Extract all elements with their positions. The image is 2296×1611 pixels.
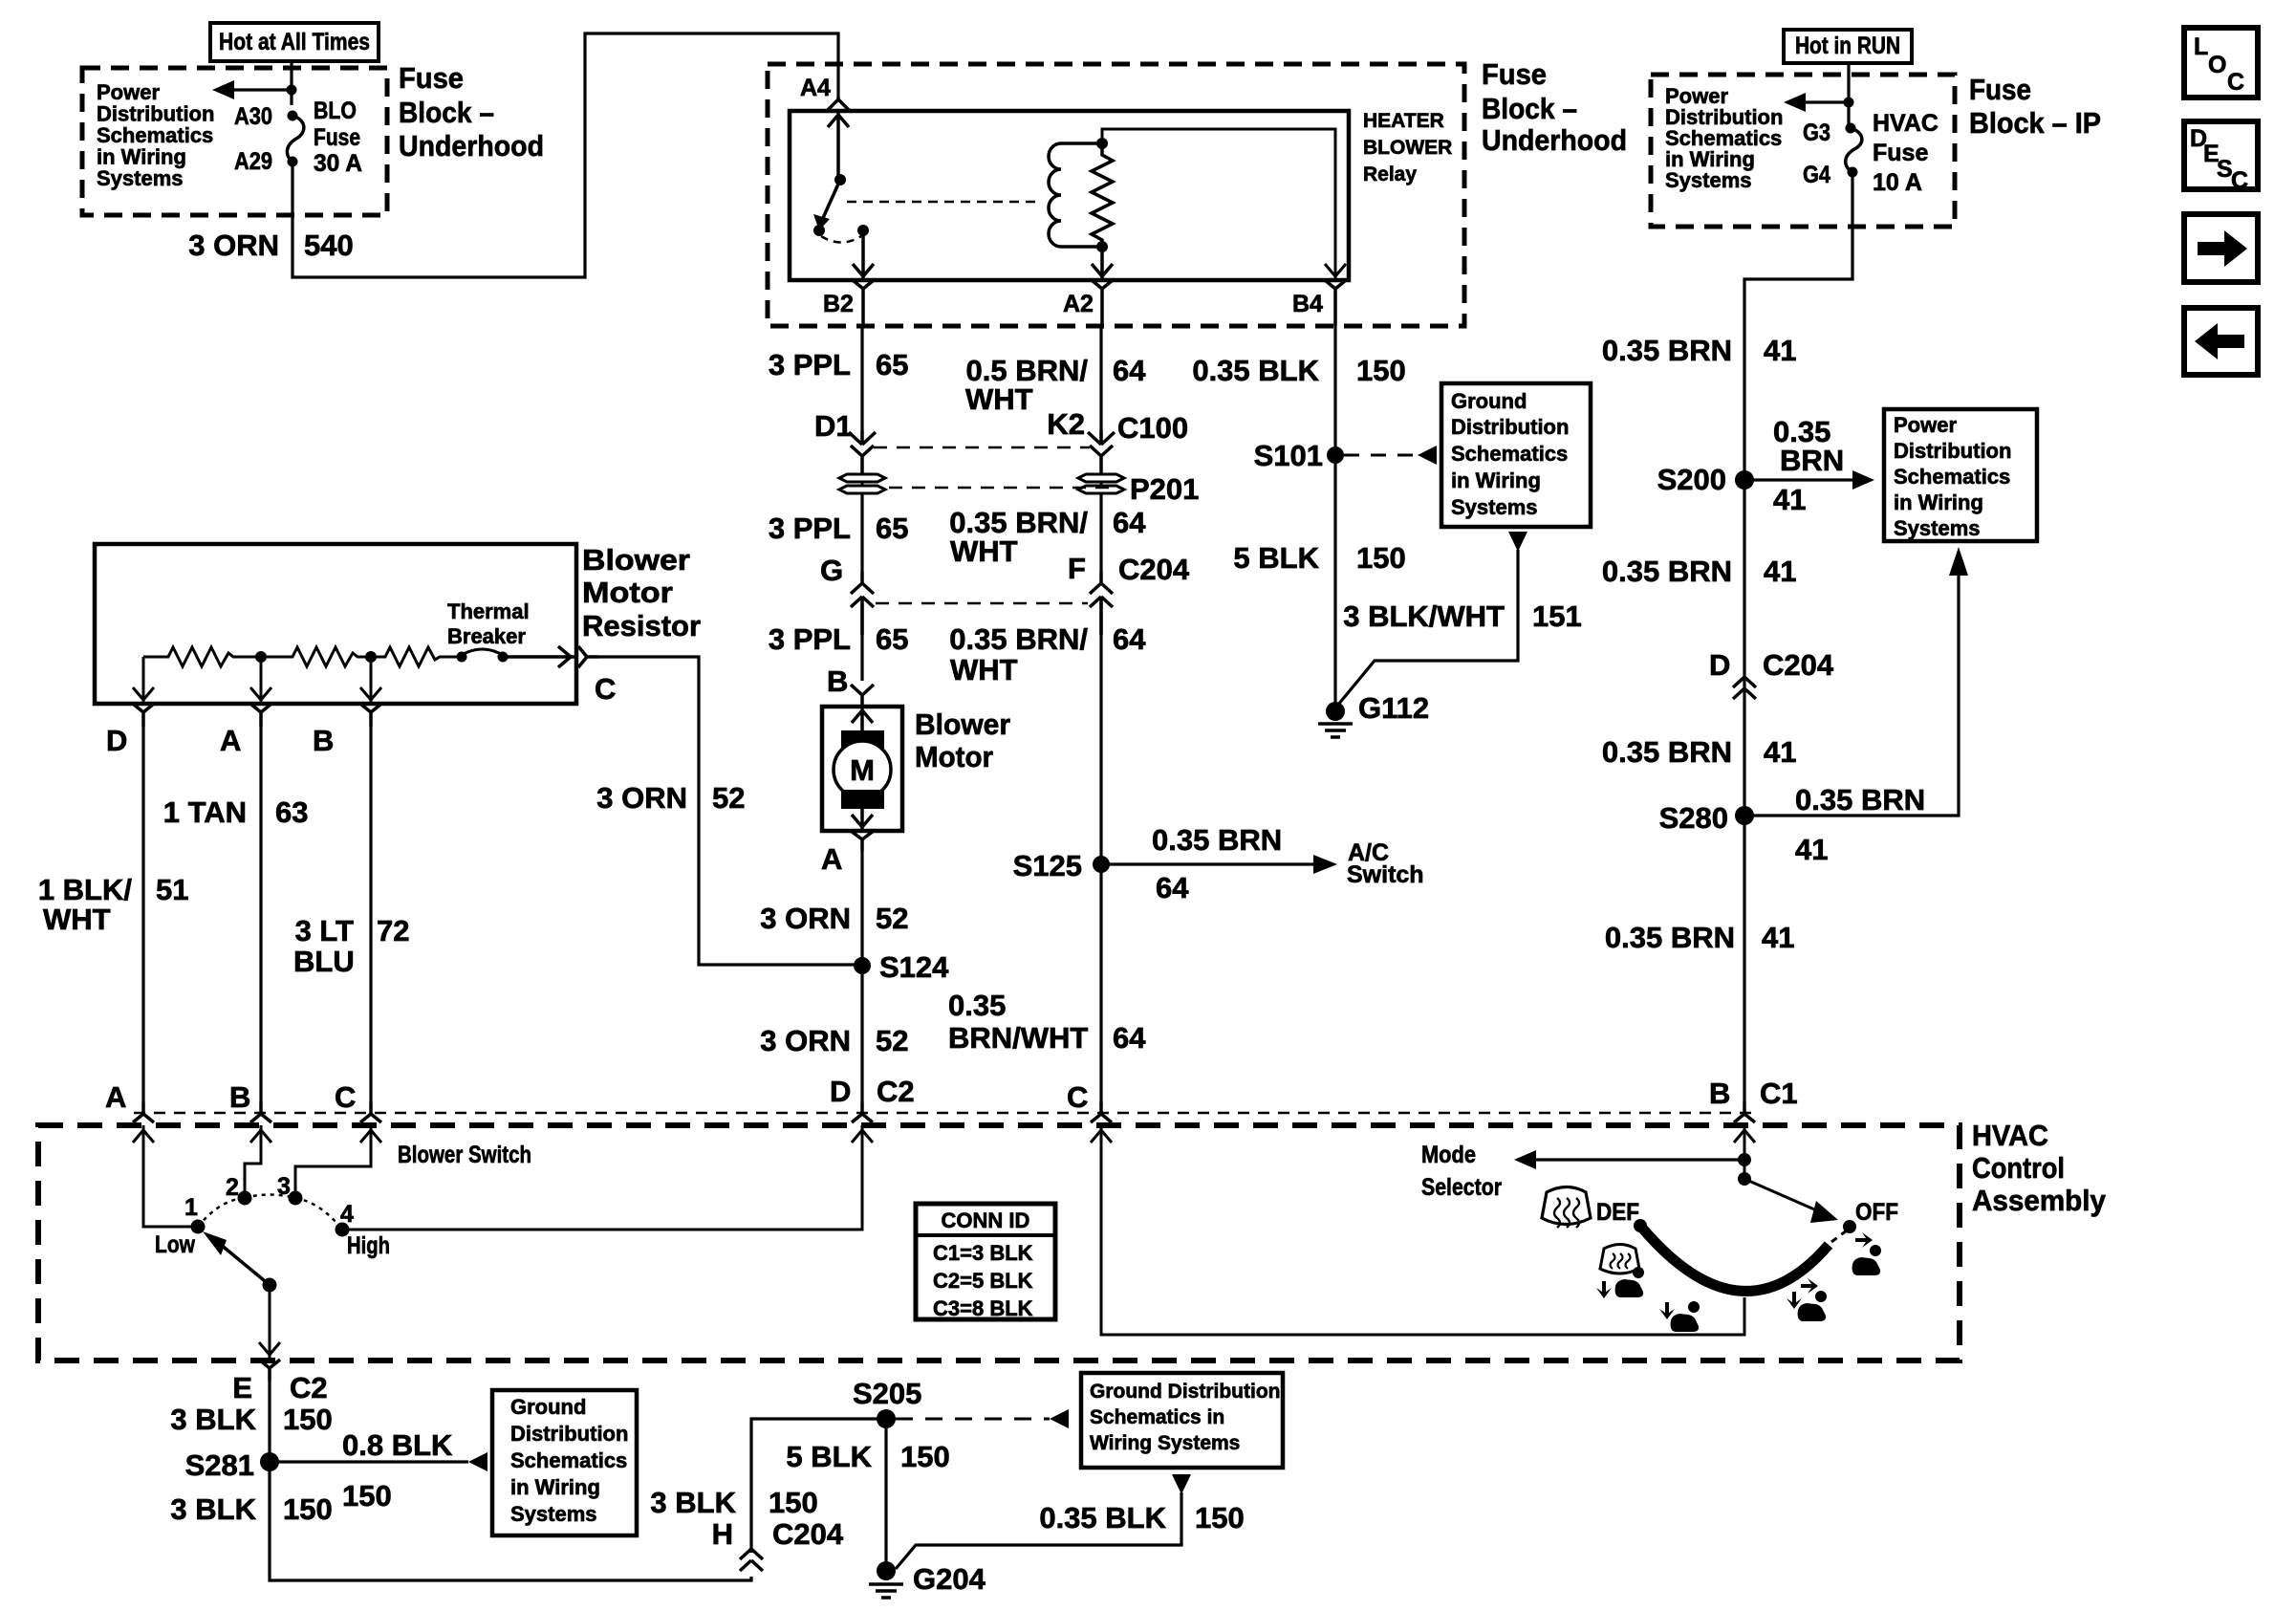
svg-text:E: E <box>232 1371 252 1404</box>
svg-text:41: 41 <box>1764 334 1796 367</box>
label A/C Switch <box>1347 839 1424 888</box>
left arrow box <box>2184 308 2258 375</box>
connector C204 H double chevron <box>740 1549 763 1571</box>
motor circle M <box>834 741 891 798</box>
connector fork D1 <box>851 446 874 474</box>
wire coil top to B4 exit <box>1102 129 1346 280</box>
label Fuse Block - IP <box>1969 73 2101 140</box>
OFF contact <box>1843 1220 1856 1233</box>
svg-text:G112: G112 <box>1358 691 1429 725</box>
ground distribution box (S205) <box>1081 1373 1283 1468</box>
label B2 <box>823 291 854 317</box>
label 0.35 BRN/WHT 64 (2) <box>949 506 1146 568</box>
svg-text:150: 150 <box>342 1479 392 1513</box>
dashed throw arc <box>821 236 861 243</box>
connector fork B resistor <box>360 704 381 727</box>
mode wiper pivot <box>1738 1172 1751 1186</box>
connector C204 D double chevron <box>1733 677 1756 699</box>
svg-text:Distribution: Distribution <box>97 102 214 126</box>
wire A into switch contact 1 <box>133 1125 191 1227</box>
svg-text:Mode: Mode <box>1421 1142 1476 1168</box>
ground distribution box (S101) <box>1441 383 1591 527</box>
svg-text:3: 3 <box>277 1173 291 1200</box>
svg-text:Systems: Systems <box>1894 516 1981 540</box>
relay coil resistor <box>1092 143 1113 247</box>
label B4 <box>1292 291 1323 317</box>
svg-text:41: 41 <box>1773 483 1806 516</box>
wire from HVAC fuse down to S200 <box>1744 172 1852 1102</box>
svg-text:S200: S200 <box>1657 463 1726 496</box>
svg-text:Resistor: Resistor <box>582 609 701 642</box>
svg-text:52: 52 <box>876 902 908 935</box>
node at arrow branch <box>287 85 297 96</box>
svg-text:S101: S101 <box>1254 439 1323 472</box>
svg-text:WHT: WHT <box>43 903 111 936</box>
resistor element 1 <box>143 647 261 666</box>
connector fork B hvac <box>250 1102 271 1122</box>
svg-text:DEF: DEF <box>1596 1199 1639 1226</box>
svg-text:Wiring Systems: Wiring Systems <box>1090 1432 1240 1454</box>
svg-text:G3: G3 <box>1803 120 1830 146</box>
svg-text:A2: A2 <box>1063 291 1094 317</box>
svg-text:A: A <box>220 724 241 757</box>
wire 0.35 BRN/WHT 64 to S125 <box>1099 602 1102 1102</box>
svg-text:41: 41 <box>1764 735 1796 769</box>
connector fork D resistor <box>133 704 154 727</box>
svg-text:3 BLK: 3 BLK <box>170 1403 256 1436</box>
label 0.35 BRN 41 (4) <box>1605 921 1795 954</box>
svg-text:Fuse: Fuse <box>399 61 464 95</box>
dashed arc tail to OFF <box>1831 1230 1847 1242</box>
svg-text:4: 4 <box>340 1201 354 1228</box>
svg-text:High: High <box>347 1232 390 1259</box>
label 0.35 BRN (S125) <box>1152 823 1282 857</box>
svg-text:72: 72 <box>377 914 409 947</box>
svg-text:3 PPL: 3 PPL <box>769 622 851 656</box>
svg-text:150: 150 <box>283 1403 333 1436</box>
node resistor A <box>255 651 267 663</box>
svg-text:BLU: BLU <box>293 945 355 978</box>
label A2 <box>1063 291 1094 317</box>
svg-text:41: 41 <box>1762 921 1794 954</box>
label C100 <box>1117 411 1188 445</box>
svg-text:G204: G204 <box>913 1562 986 1596</box>
svg-text:Schematics: Schematics <box>1451 442 1568 466</box>
svg-text:0.35 BLK: 0.35 BLK <box>1192 354 1319 387</box>
svg-text:L: L <box>2194 33 2208 60</box>
label Low <box>155 1231 195 1258</box>
label 1 <box>184 1194 198 1221</box>
dashed line C204 <box>876 602 1088 605</box>
svg-text:Fuse: Fuse <box>1482 57 1547 91</box>
svg-text:Motor: Motor <box>915 740 993 773</box>
svg-text:2: 2 <box>226 1174 239 1201</box>
arrow to Power Distribution Schematics <box>212 80 292 99</box>
connector fork K2 <box>1090 446 1113 474</box>
dotted selector arc <box>198 1195 342 1230</box>
connector fork A blower <box>851 831 874 851</box>
DEF icon <box>1542 1187 1591 1229</box>
svg-text:P201: P201 <box>1130 472 1199 506</box>
Hot at All Times box <box>210 23 379 61</box>
svg-text:C1=3 BLK: C1=3 BLK <box>933 1241 1033 1265</box>
svg-text:1 TAN: 1 TAN <box>163 795 247 829</box>
svg-text:0.35 BRN: 0.35 BRN <box>1602 334 1732 367</box>
label BLO Fuse 30 A <box>314 98 362 177</box>
wire 3 ORN 52 S124 to HVAC D <box>860 966 863 1102</box>
fuse block underhood dashed box <box>82 68 387 215</box>
label 1 BLK/WHT 51 <box>38 873 189 936</box>
label 0.5 BRN/WHT 64 <box>965 354 1146 416</box>
connector fork A hvac <box>133 1102 154 1122</box>
svg-text:C: C <box>595 672 616 706</box>
resistor pin A drop <box>250 657 271 704</box>
svg-text:C2=5 BLK: C2=5 BLK <box>933 1269 1033 1293</box>
label B C1 hvac <box>1709 1077 1798 1110</box>
connector B2 <box>853 280 874 326</box>
svg-text:D: D <box>1709 648 1730 682</box>
arrow to Power Distribution Schematics (IP) <box>1784 93 1849 112</box>
wire 3 PPL to blower motor B <box>860 602 863 681</box>
resistor element 3 <box>371 647 459 666</box>
label 3 PPL 65 (1) <box>769 348 909 381</box>
label C switch <box>335 1080 356 1114</box>
svg-text:C: C <box>2227 69 2244 96</box>
label 0.35 BLK 150 <box>1192 354 1405 387</box>
svg-text:BLO: BLO <box>314 98 357 124</box>
svg-text:in Wiring: in Wiring <box>97 145 186 169</box>
svg-text:10 A: 10 A <box>1873 169 1922 196</box>
label Blower Switch <box>398 1142 531 1168</box>
svg-text:WHT: WHT <box>965 382 1033 416</box>
svg-text:D: D <box>830 1075 851 1108</box>
label G204 <box>913 1562 986 1596</box>
label P201 <box>1130 472 1199 506</box>
svg-text:0.35 BLK: 0.35 BLK <box>1039 1501 1166 1535</box>
label S200 <box>1657 463 1726 496</box>
svg-text:B: B <box>1709 1077 1730 1110</box>
svg-text:BLOWER: BLOWER <box>1363 137 1452 159</box>
svg-text:Distribution: Distribution <box>510 1422 628 1446</box>
svg-text:Block –: Block – <box>399 96 494 129</box>
svg-text:Distribution: Distribution <box>1451 415 1569 439</box>
mode icon panel <box>1852 1232 1881 1275</box>
svg-text:S280: S280 <box>1659 801 1728 835</box>
node coil top <box>1096 138 1108 149</box>
svg-text:Schematics: Schematics <box>510 1448 627 1472</box>
fuse block IP dashed box <box>1651 75 1955 227</box>
label C hvac <box>1067 1080 1088 1114</box>
label 3 ORN 52 (resistor C) <box>596 781 745 815</box>
label 3 PPL 65 (2) <box>769 512 909 545</box>
svg-text:M: M <box>850 753 875 787</box>
svg-text:S125: S125 <box>1013 849 1082 882</box>
svg-text:0.35 BRN: 0.35 BRN <box>1795 783 1925 816</box>
wire 3 ORN 540 from fuse to relay A4 <box>292 33 838 277</box>
connector C204 G double chevron <box>851 572 874 635</box>
svg-text:Selector: Selector <box>1421 1174 1502 1201</box>
svg-text:0.8 BLK: 0.8 BLK <box>342 1428 453 1462</box>
svg-text:65: 65 <box>876 622 908 656</box>
resistor element 2 <box>261 647 371 666</box>
svg-text:B: B <box>229 1080 250 1114</box>
connector C204 F double chevron <box>1090 572 1113 635</box>
label 3 LT BLU 72 <box>293 914 409 978</box>
svg-text:C2: C2 <box>290 1371 328 1404</box>
label High <box>347 1232 390 1259</box>
svg-text:1 BLK/: 1 BLK/ <box>38 873 133 906</box>
note: power distribution schematics in wiring systems (right) <box>1665 84 1783 192</box>
thermal breaker <box>457 649 509 663</box>
svg-text:C204: C204 <box>1118 553 1190 586</box>
switch contact 2 <box>238 1191 252 1206</box>
wire S205 down to G204 <box>884 1419 887 1571</box>
svg-text:Schematics in: Schematics in <box>1090 1406 1224 1428</box>
svg-text:Low: Low <box>155 1231 195 1258</box>
label 3 BLK 150 (upper) <box>170 1403 332 1436</box>
label D C2 switch <box>830 1075 915 1108</box>
label S125 <box>1013 849 1082 882</box>
wire 0.5 BRN/WHT 64 A2 to K2 <box>1099 326 1102 430</box>
svg-text:G: G <box>820 554 843 587</box>
label 3 ORN 540 <box>188 229 353 262</box>
svg-text:C1: C1 <box>1760 1077 1798 1110</box>
label 1 TAN 63 <box>163 795 309 829</box>
label E C2 <box>232 1371 327 1404</box>
svg-text:0.35 BRN: 0.35 BRN <box>1602 735 1732 769</box>
svg-text:3 PPL: 3 PPL <box>769 348 851 381</box>
connector dashed line across HVAC pins <box>134 1112 1754 1115</box>
svg-text:Systems: Systems <box>1665 168 1752 192</box>
label HVAC Fuse 10 A <box>1873 110 1939 196</box>
svg-text:Blower: Blower <box>915 708 1010 741</box>
svg-text:Breaker: Breaker <box>447 624 526 648</box>
svg-text:64: 64 <box>1113 1021 1146 1055</box>
svg-text:Systems: Systems <box>97 166 184 190</box>
label G4 <box>1803 162 1830 188</box>
connector fork C2 hvac <box>1091 1102 1112 1122</box>
label Blower Motor Resistor <box>582 543 701 642</box>
svg-text:HEATER: HEATER <box>1363 110 1444 132</box>
svg-text:Systems: Systems <box>510 1502 597 1526</box>
wire B C1 into HVAC with up arrow <box>1734 1125 1755 1179</box>
svg-text:A: A <box>105 1080 126 1114</box>
blower motor wire in with up arrow <box>852 707 873 730</box>
svg-text:C2: C2 <box>877 1075 915 1108</box>
blower motor box <box>822 707 902 831</box>
wire S200 to power distribution box <box>1744 470 1874 490</box>
svg-text:65: 65 <box>876 348 908 381</box>
label 0.35 BRN (S280) <box>1795 783 1925 816</box>
svg-text:Blower: Blower <box>582 543 690 577</box>
label F <box>1068 552 1086 585</box>
label 0.35 BRN/WHT 64 (3) <box>949 622 1146 686</box>
heater blower relay box <box>790 111 1349 280</box>
resistor pin D drop <box>133 657 154 704</box>
svg-text:64: 64 <box>1113 622 1146 656</box>
label B switch <box>229 1080 250 1114</box>
svg-text:3 PPL: 3 PPL <box>769 512 851 545</box>
label A switch <box>105 1080 126 1114</box>
wire S280 up to power distribution box <box>1744 547 1968 816</box>
svg-text:Underhood: Underhood <box>399 129 544 163</box>
svg-text:in Wiring: in Wiring <box>510 1475 600 1499</box>
label HEATER BLOWER Relay <box>1363 110 1452 185</box>
svg-text:B: B <box>313 724 334 757</box>
svg-text:Distribution: Distribution <box>1894 439 2011 463</box>
motor brush bottom <box>841 790 884 809</box>
mode selector arc <box>1640 1226 1829 1291</box>
relay coil <box>1049 143 1102 247</box>
svg-text:63: 63 <box>275 795 308 829</box>
svg-text:41: 41 <box>1764 555 1796 588</box>
junction S101 <box>1327 446 1344 464</box>
wire S281 to ground distribution reference <box>270 1452 487 1471</box>
label D resistor <box>106 724 127 757</box>
svg-text:5 BLK: 5 BLK <box>786 1440 872 1473</box>
power distribution box (S200) <box>1884 409 2037 541</box>
note: power distribution schematics in wiring systems (left) <box>97 80 214 190</box>
grommet P201 right <box>1078 474 1124 493</box>
label 0.35 BRN 41 (1) <box>1602 334 1797 367</box>
right arrow box <box>2184 214 2258 282</box>
label 3 BLK 150 (lower) <box>170 1492 332 1526</box>
label Fuse Block - Underhood (relay) <box>1482 57 1627 157</box>
wire through P201 right <box>1099 493 1102 572</box>
svg-text:Switch: Switch <box>1347 861 1424 888</box>
switch wiper pivot <box>263 1278 277 1293</box>
svg-text:WHT: WHT <box>950 653 1018 686</box>
dashed reference wire S205 <box>896 1409 1069 1428</box>
wire 0.35 BLK 150 B4 to S101 <box>1333 326 1336 708</box>
label 0.35 BRN 41 (2) <box>1602 555 1797 588</box>
svg-text:3 BLK/WHT: 3 BLK/WHT <box>1343 599 1505 633</box>
svg-text:64: 64 <box>1113 506 1146 539</box>
svg-text:K2: K2 <box>1047 407 1085 441</box>
dashed line P201 <box>889 487 1120 490</box>
label Thermal Breaker <box>447 599 530 648</box>
label 3 BLK 150 H C204 <box>650 1486 843 1551</box>
svg-text:540: 540 <box>304 229 354 262</box>
arrow from ground distribution box (S205) down <box>896 1474 1191 1569</box>
svg-text:150: 150 <box>769 1486 818 1519</box>
relay switch contact right <box>857 225 869 236</box>
label B (blower) <box>827 664 848 698</box>
mode icon blend <box>1787 1278 1827 1321</box>
svg-text:S124: S124 <box>879 950 949 984</box>
svg-text:Hot in RUN: Hot in RUN <box>1795 33 1900 59</box>
svg-text:A29: A29 <box>234 148 272 175</box>
wire D(high) into switch contact 4 <box>342 1125 873 1230</box>
svg-text:B4: B4 <box>1292 291 1323 317</box>
svg-text:150: 150 <box>1356 354 1406 387</box>
node resistor B <box>365 651 377 663</box>
blower motor resistor box <box>95 544 576 704</box>
svg-text:O: O <box>2208 52 2226 78</box>
label 64 (S125) <box>1156 871 1189 904</box>
svg-text:Block –: Block – <box>1482 92 1577 125</box>
svg-text:Ground: Ground <box>510 1395 586 1419</box>
label A4 <box>800 75 831 101</box>
label 0.35 BRN 41 (3) <box>1602 735 1797 769</box>
connector fork E <box>259 1360 280 1382</box>
svg-text:0.35: 0.35 <box>948 989 1006 1022</box>
wire C into switch contact 3 <box>295 1125 381 1191</box>
svg-text:C: C <box>335 1080 356 1114</box>
wire A4 into relay with up arrow <box>828 111 849 180</box>
switch contact 1 <box>191 1220 206 1234</box>
label C204 (top) <box>1118 553 1190 586</box>
label 0.8 BLK <box>342 1428 453 1462</box>
connector arrow K2 <box>1088 430 1115 445</box>
svg-text:F: F <box>1068 552 1086 585</box>
svg-text:C: C <box>2231 167 2248 194</box>
label Mode Selector <box>1421 1142 1502 1201</box>
svg-text:150: 150 <box>283 1492 333 1526</box>
node at arrow branch (IP) <box>1844 98 1854 108</box>
note ground distribution schematics (S205) <box>1090 1381 1280 1454</box>
label G3 <box>1803 120 1830 146</box>
wire hot in RUN into HVAC fuse <box>1847 65 1850 128</box>
wire 3 PPL 65 B2 to D1 <box>860 326 863 430</box>
relay switch arm <box>813 180 840 230</box>
svg-text:A: A <box>821 842 842 876</box>
CONN ID table <box>916 1204 1055 1320</box>
switch contact 3 <box>289 1191 303 1206</box>
svg-text:150: 150 <box>1356 541 1406 575</box>
label S281 <box>185 1448 254 1482</box>
relay switch contact left <box>813 225 825 236</box>
svg-text:HVAC: HVAC <box>1873 110 1939 137</box>
svg-text:G4: G4 <box>1803 162 1830 188</box>
label A resistor <box>220 724 241 757</box>
svg-text:D1: D1 <box>814 409 853 443</box>
wire 3 ORN 52 resistor C to S124 <box>598 657 862 965</box>
ground G112 <box>1318 702 1353 737</box>
svg-text:D: D <box>106 724 127 757</box>
dashed line C100 <box>874 446 1090 449</box>
svg-text:B: B <box>827 664 848 698</box>
svg-text:1: 1 <box>184 1194 198 1221</box>
svg-text:150: 150 <box>900 1440 950 1473</box>
connector A2 <box>1092 280 1113 326</box>
wire C into HVAC mode selector <box>1091 1125 1744 1335</box>
relay control dashed link <box>847 201 1040 204</box>
wire wiper to E with down arrow <box>259 1285 280 1360</box>
label S280 <box>1659 801 1728 835</box>
svg-text:150: 150 <box>1195 1501 1245 1535</box>
wire 3 ORN 52 motor A to S124 <box>860 851 863 966</box>
svg-text:0.35 BRN: 0.35 BRN <box>1152 823 1282 857</box>
connector fork B C1 hvac <box>1734 1102 1755 1122</box>
svg-text:Ground Distribution: Ground Distribution <box>1090 1381 1280 1403</box>
svg-text:3 ORN: 3 ORN <box>760 1024 851 1057</box>
junction S205 <box>877 1409 896 1428</box>
svg-text:Power: Power <box>97 80 160 104</box>
svg-text:3 BLK: 3 BLK <box>170 1492 256 1526</box>
resistor pin B drop <box>360 657 381 704</box>
connector fork D hvac <box>852 1102 873 1122</box>
label 3 ORN 52 (above S124) <box>760 902 908 935</box>
label Fuse Block - Underhood (left) <box>399 61 544 163</box>
label 41 (S280) <box>1795 833 1828 866</box>
svg-text:Underhood: Underhood <box>1482 123 1627 157</box>
wire B2 exit with down arrow <box>853 230 874 280</box>
svg-text:Schematics: Schematics <box>1894 465 2010 489</box>
svg-text:41: 41 <box>1795 833 1828 866</box>
svg-text:S205: S205 <box>853 1377 921 1410</box>
switch wiper arm <box>203 1231 270 1285</box>
